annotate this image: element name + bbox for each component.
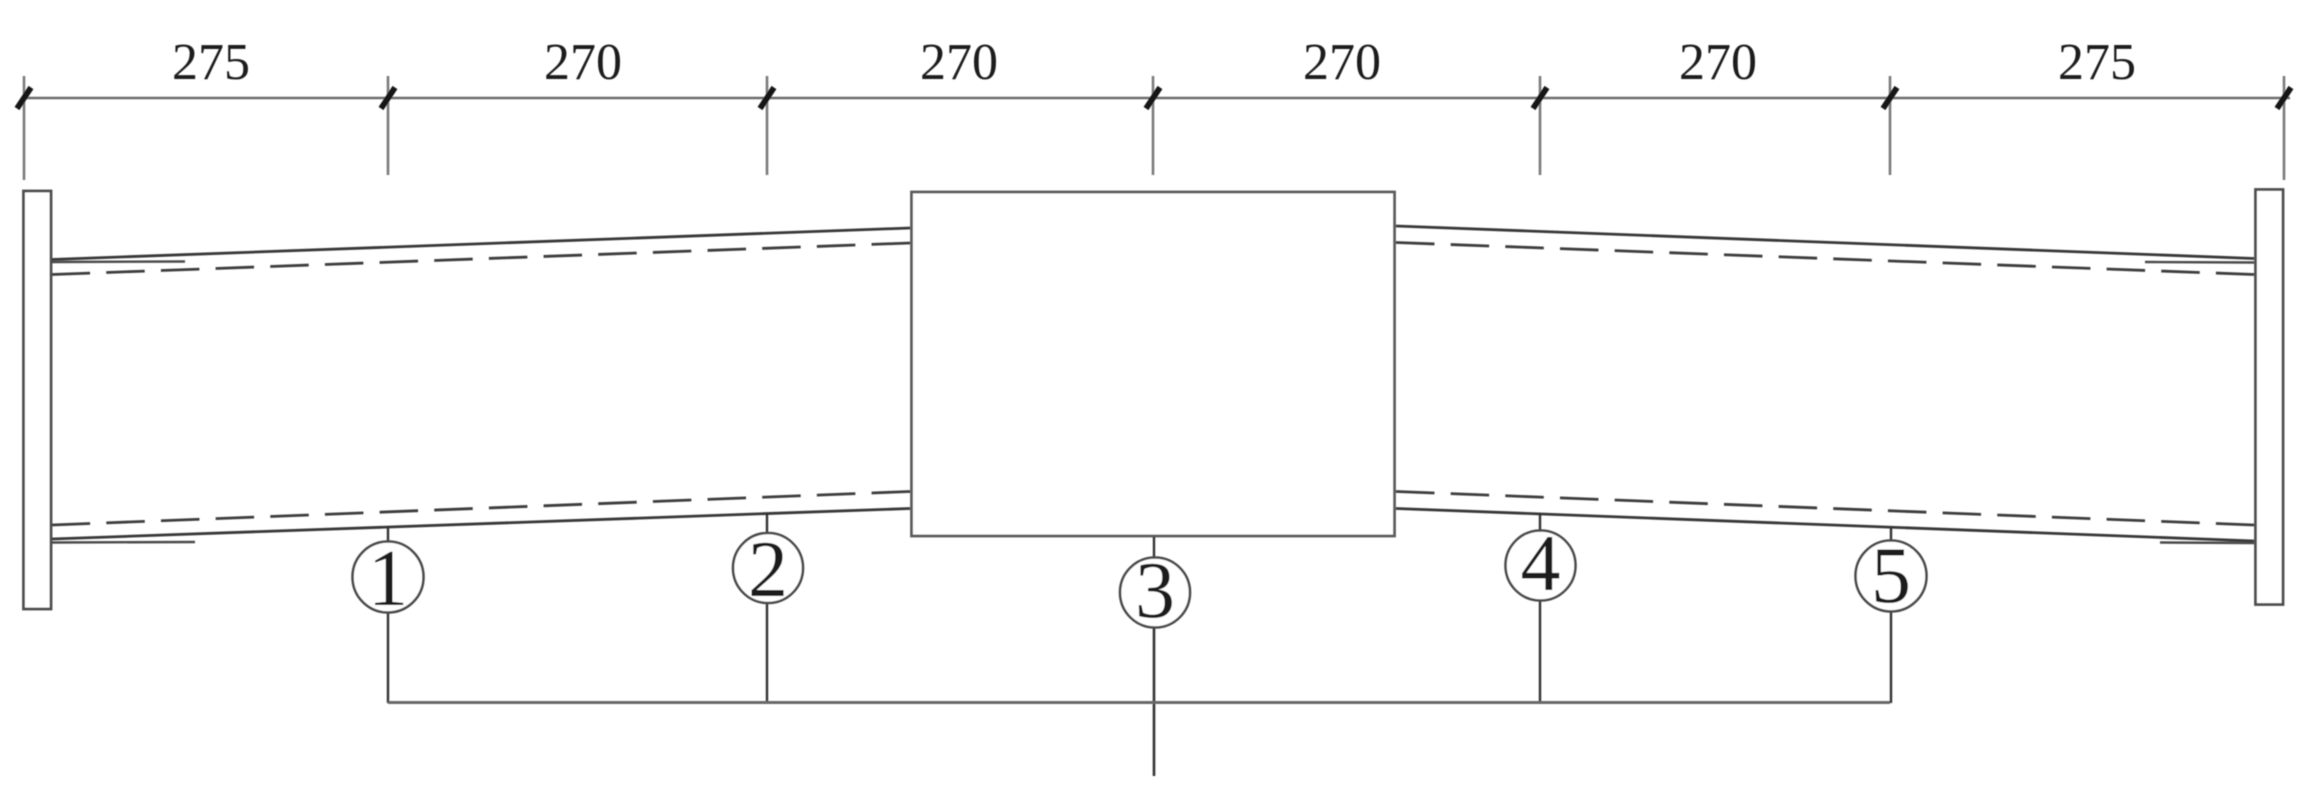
beam bottom-right flat stub at plate: [2160, 541, 2254, 544]
svg-text:1: 1: [368, 535, 408, 623]
extension line tick 6: [1883, 76, 1897, 175]
stub to gauge 3: [1153, 537, 1155, 558]
extension line tick 1: [17, 76, 31, 180]
svg-text:270: 270: [544, 34, 622, 91]
beam bottom-left dashed inner edge: [52, 492, 910, 526]
extension line tick 7: [2277, 76, 2291, 180]
gauge circle 3: [1120, 547, 1190, 635]
beam top-left solid edge: [52, 228, 910, 260]
gauge circle 5: [1856, 532, 1927, 620]
gauge circle 1: [353, 535, 424, 623]
svg-text:270: 270: [1679, 34, 1757, 91]
right end plate: [2256, 190, 2284, 605]
svg-text:275: 275: [172, 34, 250, 91]
beam top-left dashed inner edge: [52, 243, 910, 275]
central loading block: [912, 192, 1395, 536]
dimension line: [22, 97, 2290, 100]
svg-text:5: 5: [1871, 532, 1911, 620]
stub to gauge 2: [766, 513, 768, 534]
gauge circle 4: [1506, 520, 1576, 608]
beam top-left flat stub at plate: [52, 260, 185, 263]
beam top-right solid edge: [1396, 226, 2254, 259]
beam bottom-left flat stub at plate: [52, 541, 195, 544]
wire below gauge 5: [1890, 611, 1892, 703]
wire below gauge 3: [1153, 628, 1156, 777]
stub to gauge 5: [1890, 527, 1892, 541]
svg-text:270: 270: [1303, 34, 1381, 91]
stub to gauge 4: [1539, 513, 1541, 531]
svg-text:2: 2: [748, 526, 788, 614]
bus line: [388, 701, 1890, 704]
extension line tick 3: [760, 76, 774, 175]
wire below gauge 2: [766, 603, 768, 703]
beam top-right dashed inner edge: [1396, 243, 2254, 275]
svg-text:3: 3: [1135, 547, 1175, 635]
beam bottom-left solid edge: [52, 509, 910, 540]
beam bottom-right dashed inner edge: [1396, 492, 2254, 526]
svg-text:270: 270: [920, 34, 998, 91]
wire below gauge 4: [1539, 601, 1541, 704]
left end plate: [24, 191, 52, 609]
extension line tick 5: [1533, 76, 1547, 175]
beam bottom-right solid edge: [1396, 509, 2254, 542]
wire below gauge 1: [387, 612, 389, 703]
beam top-right flat stub at plate: [2145, 261, 2254, 264]
gauge circle 2: [733, 526, 803, 614]
extension line tick 4: [1146, 76, 1160, 175]
svg-text:275: 275: [2058, 34, 2136, 91]
stub to gauge 1: [387, 526, 389, 542]
extension line tick 2: [381, 76, 395, 175]
svg-text:4: 4: [1521, 520, 1561, 608]
